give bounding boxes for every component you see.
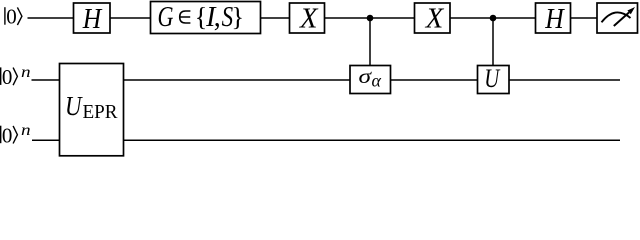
svg-text:G: G [158,2,174,33]
svg-text:X: X [299,4,318,35]
svg-text:0: 0 [2,65,13,89]
svg-text:X: X [425,4,444,35]
svg-text:U: U [65,91,83,121]
svg-text:0: 0 [2,123,13,147]
svg-text:,: , [214,2,221,33]
svg-text:H: H [544,4,565,35]
svg-text:α: α [372,70,382,90]
svg-text:EPR: EPR [83,101,119,123]
svg-text:H: H [82,4,103,35]
svg-text:}: } [231,1,244,31]
svg-text:0: 0 [6,5,17,29]
svg-text:n: n [21,64,31,81]
svg-text:n: n [21,122,31,139]
svg-text:U: U [484,64,501,93]
